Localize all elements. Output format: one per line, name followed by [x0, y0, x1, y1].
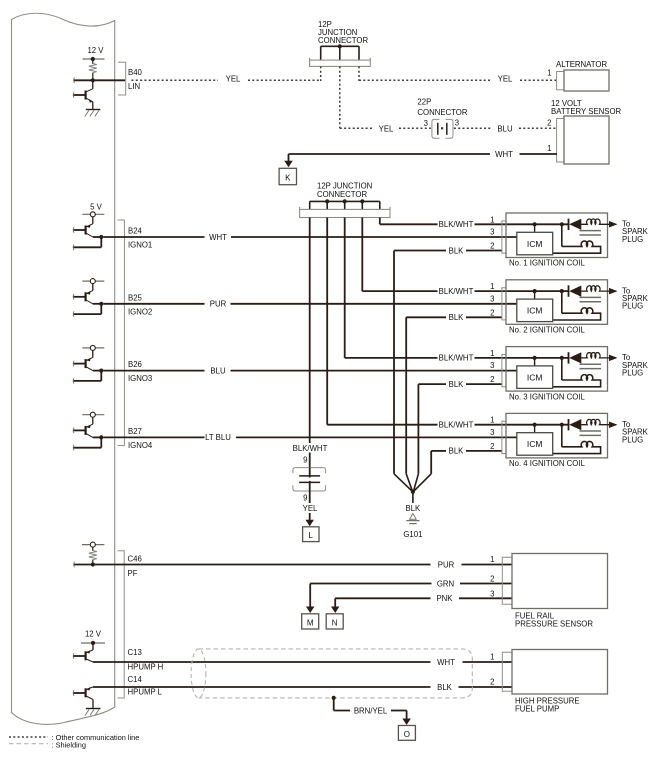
svg-text:BLK: BLK — [437, 683, 453, 692]
svg-text:12 V: 12 V — [85, 630, 102, 639]
wire BLK (C14 to fuel pump pin 2) — [93, 686, 431, 688]
svg-text:IGNO4: IGNO4 — [128, 441, 153, 450]
junction dot (coil 3 pin1 to ICM) — [533, 356, 537, 360]
svg-text:BLK/WHT: BLK/WHT — [439, 421, 474, 430]
svg-text:2: 2 — [490, 375, 494, 384]
svg-text:BATTERY SENSOR: BATTERY SENSOR — [551, 107, 622, 116]
transistor driver B27 — [82, 414, 104, 416]
terminal L box — [303, 527, 319, 542]
wire BLK/WHT (12P to No.1 coil pin 1) — [380, 223, 438, 225]
secondary winding (coil 1) — [561, 224, 563, 246]
svg-text:PRESSURE SENSOR: PRESSURE SENSOR — [515, 620, 593, 629]
svg-text:BLK: BLK — [449, 380, 465, 389]
svg-text:PLUG: PLUG — [622, 235, 643, 244]
transistor driver B25 — [82, 280, 104, 282]
svg-text:GRN: GRN — [437, 579, 454, 588]
svg-text:YEL: YEL — [303, 504, 318, 513]
svg-text:B26: B26 — [128, 360, 142, 369]
junction 12V rail — [91, 57, 95, 61]
svg-text:PLUG: PLUG — [622, 302, 643, 311]
wire C46 lead — [74, 564, 93, 566]
wire BLK (No.2 coil pin 2 to G101) — [466, 316, 502, 318]
wire dotted stub left pin — [320, 66, 322, 81]
connector bracket No.1 coil — [502, 221, 506, 253]
wire B40 output — [74, 79, 125, 81]
junction dot (coil 3 pin1 to secondary) — [560, 356, 564, 360]
wire dotted BLU (22P to battery sensor) — [454, 127, 492, 129]
connector bracket C46-C14 — [118, 551, 125, 698]
svg-text:1: 1 — [547, 69, 551, 78]
svg-text:1: 1 — [490, 653, 494, 662]
svg-text:22P: 22P — [417, 98, 431, 107]
connector bracket No.3 coil — [502, 355, 506, 387]
svg-text:YEL: YEL — [226, 75, 241, 84]
svg-text:No. 1 IGNITION COIL: No. 1 IGNITION COIL — [509, 259, 585, 268]
wire WHT (C13 to fuel pump pin 1) — [93, 661, 431, 663]
svg-text:1: 1 — [490, 215, 494, 224]
svg-text:2: 2 — [490, 442, 494, 451]
svg-text:5 V: 5 V — [90, 203, 103, 212]
svg-text:M: M — [307, 619, 314, 628]
primary winding (coil 4) — [579, 419, 616, 424]
arrow to terminal N — [331, 607, 340, 614]
arrow to terminal K — [284, 161, 293, 168]
svg-text:CONNECTOR: CONNECTOR — [417, 108, 467, 117]
arrow to terminal M — [306, 607, 315, 614]
core lines (coil 1) — [580, 230, 602, 232]
svg-text:BLK/WHT: BLK/WHT — [293, 444, 328, 453]
legend: other communication line — [9, 736, 48, 738]
svg-text:2: 2 — [547, 119, 551, 128]
core lines (coil 4) — [580, 430, 602, 432]
svg-text:C14: C14 — [128, 675, 143, 684]
svg-text:PNK: PNK — [436, 594, 453, 603]
svg-text:B40: B40 — [128, 68, 143, 77]
connector bracket (battery sensor) — [557, 119, 564, 163]
wire BLK (No.4 coil pin 2 to G101) — [466, 450, 502, 452]
svg-text:PLUG: PLUG — [622, 369, 643, 378]
junction dot (coil 4 pin1 to secondary) — [560, 423, 564, 427]
junction dot (coil 2 pin1 to ICM) — [533, 289, 537, 293]
secondary winding (coil 4) — [561, 425, 563, 447]
svg-text:C46: C46 — [128, 555, 142, 564]
No.2 ignition coil box — [506, 280, 608, 325]
wire GRN (sensor pin 2 to terminal M) — [460, 583, 512, 585]
wire dotted stub right pin — [358, 66, 360, 81]
No.3 ignition coil box — [506, 347, 608, 392]
12P junction connector (ignition) symbol — [310, 200, 380, 202]
svg-text:2: 2 — [490, 308, 494, 317]
svg-text:2: 2 — [490, 575, 494, 584]
svg-text:12 V: 12 V — [87, 46, 104, 55]
secondary winding (coil 2) — [561, 291, 563, 313]
svg-text:No. 4 IGNITION COIL: No. 4 IGNITION COIL — [509, 459, 585, 468]
wire PUR (C46 to fuel rail sensor pin 1) — [93, 564, 431, 566]
connector bracket No.2 coil — [502, 288, 506, 320]
junction dot (coil 1 pin1 to ICM) — [533, 222, 537, 226]
primary winding (coil 3) — [579, 353, 616, 358]
svg-text:L: L — [308, 531, 313, 540]
svg-text:PUR: PUR — [438, 560, 455, 569]
svg-text:: Shielding: : Shielding — [52, 741, 87, 750]
svg-text:PUR: PUR — [210, 300, 227, 309]
svg-text:IGNO1: IGNO1 — [128, 241, 152, 250]
battery sensor box — [564, 116, 609, 164]
No.4 ignition coil box — [506, 413, 608, 458]
wire dotted YEL continued — [248, 79, 321, 81]
svg-text:YEL: YEL — [379, 125, 394, 134]
ground G101 symbol — [410, 514, 417, 520]
arrow to terminal O — [402, 719, 411, 726]
svg-text:9: 9 — [303, 456, 307, 465]
svg-text:FUEL PUMP: FUEL PUMP — [515, 705, 559, 714]
transistor driver C14 — [86, 687, 93, 690]
svg-text:WHT: WHT — [209, 233, 227, 242]
high pressure fuel pump box — [512, 650, 608, 695]
22P connector (inline, vertical) shell — [293, 468, 326, 474]
22P connector shell — [432, 119, 440, 138]
wires BLK converge to G101 — [394, 474, 412, 491]
ECU / PCM box (torn edges) — [12, 13, 115, 724]
secondary winding (coil 3) — [561, 358, 563, 380]
svg-text:PLUG: PLUG — [622, 435, 643, 444]
22P connector terminals — [299, 475, 320, 477]
arrow to spark plug 3 — [609, 355, 618, 362]
wire dotted YEL (12P to alternator) — [359, 79, 490, 81]
svg-text:BLU: BLU — [210, 366, 226, 375]
svg-text:BLK: BLK — [406, 504, 422, 513]
svg-text:C13: C13 — [128, 648, 142, 657]
wire 12P to 22P connector (BLK/WHT) — [309, 218, 311, 444]
transistor driver C13 — [86, 650, 93, 653]
svg-text:B27: B27 — [128, 427, 142, 436]
wire BLK/WHT (12P to No.3 coil pin 1) — [345, 357, 438, 359]
svg-text:BRN/YEL: BRN/YEL — [354, 706, 388, 715]
pin bracket B40 — [118, 62, 126, 95]
alternator box — [564, 70, 609, 91]
pull-up resistor — [92, 59, 94, 64]
primary winding (coil 2) — [579, 286, 616, 291]
svg-text:ICM: ICM — [527, 439, 543, 449]
svg-text:3: 3 — [455, 119, 459, 128]
svg-text:3: 3 — [490, 589, 494, 598]
svg-text:G101: G101 — [403, 530, 422, 539]
arrow to terminal L — [305, 520, 314, 527]
arrow to spark plug 4 — [609, 421, 618, 428]
connector bracket No.4 coil — [502, 421, 506, 453]
svg-text:K: K — [285, 174, 291, 183]
connector bracket (alternator) — [557, 72, 564, 90]
diode (coil 2) — [568, 285, 570, 296]
core lines (coil 2) — [580, 296, 602, 298]
svg-text:ALTERNATOR: ALTERNATOR — [556, 60, 607, 69]
arrow to spark plug 1 — [609, 221, 618, 228]
shielding around HPUMP wires — [199, 649, 473, 698]
svg-text:O: O — [404, 730, 410, 739]
ICM module (coil 2) — [517, 299, 553, 322]
svg-text:ICM: ICM — [527, 239, 543, 249]
svg-text:N: N — [332, 619, 338, 628]
wire dotted YEL (12P middle to 22P connector) — [340, 127, 373, 129]
arrow to spark plug 2 — [609, 288, 618, 295]
svg-text:WHT: WHT — [495, 150, 513, 159]
wire BLK (No.3 coil pin 2 to G101) — [466, 383, 502, 385]
svg-text:No. 2 IGNITION COIL: No. 2 IGNITION COIL — [509, 326, 585, 335]
svg-text:BLK: BLK — [449, 447, 465, 456]
junction G101 node — [411, 490, 415, 494]
12P junction connector (top) symbol — [321, 45, 359, 47]
node B40 junction — [91, 78, 95, 82]
svg-text:CONNECTOR: CONNECTOR — [318, 36, 368, 45]
wire WHT (battery sensor pin 1 to terminal K) — [520, 153, 558, 155]
diode (coil 3) — [568, 352, 570, 363]
primary winding (coil 1) — [579, 219, 616, 224]
diode (coil 4) — [568, 419, 570, 430]
ground (C14 driver) — [86, 708, 101, 710]
wire BLU (B26 to No.3 coil pin 3) — [103, 370, 204, 372]
svg-text:3: 3 — [490, 361, 494, 370]
svg-text:BLK: BLK — [449, 313, 465, 322]
connector bracket (fuel rail sensor) — [502, 557, 512, 604]
ground (B40 driver emitter) — [86, 109, 101, 111]
svg-text:1: 1 — [490, 555, 494, 564]
wire LT BLU (B27 to No.4 coil pin 3) — [103, 436, 204, 438]
svg-text:BLU: BLU — [497, 125, 513, 134]
svg-text:1: 1 — [490, 282, 494, 291]
svg-text:BLK/WHT: BLK/WHT — [439, 287, 474, 296]
svg-text:WHT: WHT — [437, 658, 455, 667]
12V supply rail bar — [83, 58, 105, 60]
svg-text:IGNO2: IGNO2 — [128, 307, 152, 316]
wire PUR (B25 to No.2 coil pin 3) — [103, 303, 204, 305]
22P connector terminals — [437, 123, 439, 135]
connector bracket B24-B27 — [118, 220, 125, 446]
ICM module (coil 1) — [517, 232, 553, 255]
svg-text:HPUMP L: HPUMP L — [128, 688, 163, 697]
svg-text:B24: B24 — [128, 227, 143, 236]
svg-text:3: 3 — [490, 428, 494, 437]
junction dot (coil 2 pin1 to secondary) — [560, 289, 564, 293]
wire WHT (B24 to No.1 coil pin 3) — [103, 236, 204, 238]
wire BLK/WHT (12P to No.2 coil pin 1) — [362, 290, 437, 292]
transistor Q (LIN driver) — [92, 80, 94, 89]
svg-text:BLK/WHT: BLK/WHT — [439, 220, 474, 229]
svg-text:YEL: YEL — [498, 75, 513, 84]
core lines (coil 3) — [580, 363, 602, 365]
connector bracket (fuel pump) — [502, 652, 512, 691]
terminal N box — [326, 614, 343, 629]
svg-text:IGNO3: IGNO3 — [128, 374, 152, 383]
wire dotted stub middle pin — [339, 66, 341, 128]
svg-text:PF: PF — [128, 569, 138, 578]
legend: shielding — [9, 743, 48, 745]
ICM module (coil 3) — [517, 366, 553, 389]
svg-text:2: 2 — [490, 242, 494, 251]
svg-text:ICM: ICM — [527, 372, 543, 382]
wire 12P verticals to rows — [361, 218, 363, 292]
junction dot (coil 4 pin1 to ICM) — [533, 423, 537, 427]
svg-text:BLK/WHT: BLK/WHT — [439, 354, 474, 363]
terminal M box — [302, 614, 319, 629]
junction shield drain — [332, 696, 336, 700]
svg-text:9: 9 — [303, 494, 307, 503]
svg-text:3: 3 — [490, 294, 494, 303]
svg-text:1: 1 — [490, 416, 494, 425]
svg-text:3: 3 — [424, 119, 428, 128]
svg-text:BLK: BLK — [449, 246, 465, 255]
ICM module (coil 4) — [517, 433, 553, 456]
wire BRN/YEL shield drain to terminal O — [333, 698, 335, 711]
svg-text:B25: B25 — [128, 293, 143, 302]
terminal O box — [398, 726, 415, 741]
svg-text:No. 3 IGNITION COIL: No. 3 IGNITION COIL — [509, 392, 585, 401]
terminal K box — [279, 168, 296, 184]
svg-text:HPUMP H: HPUMP H — [128, 663, 164, 672]
svg-text:2: 2 — [490, 678, 494, 687]
svg-text:CONNECTOR: CONNECTOR — [317, 190, 367, 199]
wire YEL to terminal L — [309, 491, 311, 503]
12V supply rail — [81, 642, 105, 644]
wire 12P pin to No.1 coil BLK/WHT — [379, 218, 381, 225]
wire dotted YEL (B40 to 12P junction connector) — [132, 79, 219, 81]
svg-text:3: 3 — [490, 228, 494, 237]
svg-text:LT BLU: LT BLU — [205, 433, 231, 442]
svg-text:1: 1 — [490, 349, 494, 358]
svg-text:1: 1 — [547, 144, 551, 153]
diode (coil 1) — [568, 219, 570, 230]
transistor driver B26 — [82, 347, 104, 349]
junction C46 node — [91, 562, 95, 566]
fuel rail pressure sensor box — [512, 554, 608, 609]
wire PNK (sensor pin 3 to terminal N) — [459, 597, 512, 599]
wire BLK/WHT (12P to No.4 coil pin 1) — [327, 424, 437, 426]
pull-up (C46 PF) — [82, 544, 105, 546]
svg-text:ICM: ICM — [527, 306, 543, 316]
svg-text:LIN: LIN — [128, 82, 140, 91]
No.1 ignition coil box — [506, 213, 608, 258]
junction dot (coil 1 pin1 to secondary) — [560, 222, 564, 226]
wire BLK (No.1 coil pin 2 to G101) — [466, 250, 502, 252]
